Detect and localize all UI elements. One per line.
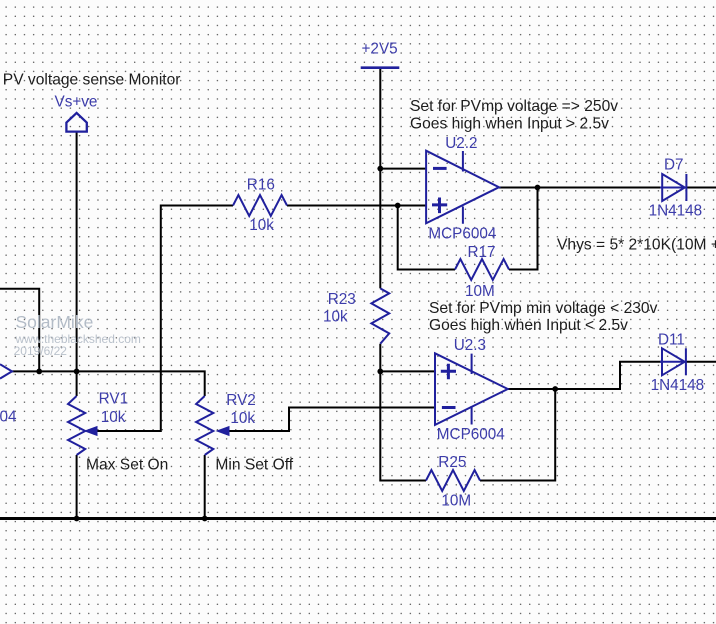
svg-text:MCP6004: MCP6004 <box>437 426 506 443</box>
potentiometer RV1 wiper arrow <box>85 427 97 436</box>
svg-text:10M: 10M <box>465 283 495 300</box>
svg-text:RV1: RV1 <box>99 391 128 408</box>
svg-text:2019/6/22: 2019/6/22 <box>14 344 68 358</box>
diode D11 <box>660 348 686 375</box>
svg-text:Max Set On: Max Set On <box>86 457 168 474</box>
op-amp U2.3 power ticks <box>471 354 473 425</box>
svg-text:R17: R17 <box>468 244 496 261</box>
node: stub joins output bus <box>36 369 42 375</box>
node: +2V5 at U2.2 minus <box>377 166 383 172</box>
svg-text:D7: D7 <box>664 157 684 174</box>
wire: RV1 bottom to ground <box>76 455 78 519</box>
op-amp U2.3 plus sign <box>441 364 456 380</box>
wire: R16 to U2.2 plus input <box>287 205 427 207</box>
svg-text:Goes high when Input > 2.5v: Goes high when Input > 2.5v <box>410 116 609 133</box>
op-amp U2.3 minus sign <box>442 406 456 409</box>
wire: Vs+ve vertical down to RV1 <box>76 131 78 396</box>
svg-text:1N4148: 1N4148 <box>649 203 703 220</box>
node: RV1 at ground <box>74 516 80 522</box>
wire: U2.1 output bus to RV2 top <box>12 371 205 396</box>
svg-text:10k: 10k <box>323 309 348 326</box>
wire: RV1 wiper to R16 <box>97 206 234 432</box>
op-amp U2.1 output tip <box>0 364 12 378</box>
svg-text:+2V5: +2V5 <box>362 41 398 58</box>
svg-text:10k: 10k <box>249 217 274 234</box>
potentiometer RV1 zigzag <box>68 396 85 455</box>
svg-text:10k: 10k <box>230 410 255 427</box>
node: RV2 at ground <box>202 516 208 522</box>
svg-text:U2.2: U2.2 <box>445 135 477 152</box>
wire: U2.2 plus node down to R17 <box>398 206 455 270</box>
op-amp U2.2 power ticks <box>462 151 464 224</box>
svg-text:R23: R23 <box>328 291 356 308</box>
wire: R23 bottom through node to R25 left <box>380 344 426 481</box>
node: R17 feedback at U2.2 plus <box>395 203 401 209</box>
op-amp U2.2 minus sign <box>433 167 447 170</box>
resistor R16 zigzag <box>233 195 287 216</box>
blue component shapes <box>0 68 686 491</box>
wire: +2V5 stem down through U2.2 minus node to R23 <box>379 68 381 289</box>
wire: D11 cathode to right edge <box>686 361 716 363</box>
node: Vs+ve joins output bus <box>74 369 80 375</box>
svg-text:D11: D11 <box>658 331 685 348</box>
wire: U2.3 output to D11 <box>507 362 662 389</box>
wire: RV2 wiper to U2.3 minus input <box>229 408 435 432</box>
potentiometer RV2 wiper arrow <box>217 427 229 436</box>
svg-text:10k: 10k <box>101 409 126 426</box>
wire: U2.2 minus input <box>380 168 427 170</box>
wire: R17 right up to U2.2 output <box>509 188 538 270</box>
wire: U2.2 output to D7 <box>499 187 662 189</box>
power bar +2V5 <box>361 66 400 69</box>
node: R23 at U2.3 plus <box>377 369 383 375</box>
svg-text:Min Set Off: Min Set Off <box>215 457 293 474</box>
svg-text:04: 04 <box>0 409 17 426</box>
svg-text:Set for PVmp voltage => 250v: Set for PVmp voltage => 250v <box>410 98 618 115</box>
diode D7 <box>660 174 686 201</box>
svg-text:MCP6004: MCP6004 <box>428 226 497 243</box>
node: U2.3 output junction <box>552 386 558 392</box>
svg-text:Set for PVmp min voltage < 230: Set for PVmp min voltage < 230v <box>429 300 658 317</box>
resistor R17 zigzag <box>455 259 509 280</box>
svg-text:R16: R16 <box>247 177 275 194</box>
op-amp U2.3 triangle <box>435 353 508 425</box>
wire: left stub into node A <box>0 289 39 372</box>
wire: RV2 bottom to ground <box>204 455 206 519</box>
svg-text:SolarMike: SolarMike <box>16 312 94 332</box>
svg-text:R25: R25 <box>438 454 466 471</box>
potentiometer RV2 zigzag <box>196 396 213 455</box>
wire: R25 right up to U2.3 output <box>480 389 555 481</box>
ground rail <box>0 517 716 520</box>
resistor R25 zigzag <box>426 470 480 491</box>
op-amp U2.2 triangle <box>426 151 499 224</box>
wire: U2.3 plus input <box>380 370 435 372</box>
svg-text:Goes high when Input < 2.5v: Goes high when Input < 2.5v <box>429 317 628 334</box>
svg-text:Vhys = 5* 2*10K(10M +: Vhys = 5* 2*10K(10M + <box>557 237 716 254</box>
resistor R23 zigzag <box>371 288 389 343</box>
port flag Vs+ve <box>66 113 86 132</box>
svg-text:Vs+ve: Vs+ve <box>55 94 98 111</box>
wire: D7 cathode to right edge <box>686 187 716 189</box>
svg-text:PV voltage sense Monitor: PV voltage sense Monitor <box>3 71 181 88</box>
op-amp U2.2 plus sign <box>432 198 447 214</box>
svg-text:1N4148: 1N4148 <box>651 377 705 394</box>
svg-text:10M: 10M <box>441 492 471 509</box>
node: U2.2 output junction <box>535 185 541 191</box>
svg-text:U2.3: U2.3 <box>454 337 486 354</box>
svg-text:RV2: RV2 <box>226 392 255 409</box>
